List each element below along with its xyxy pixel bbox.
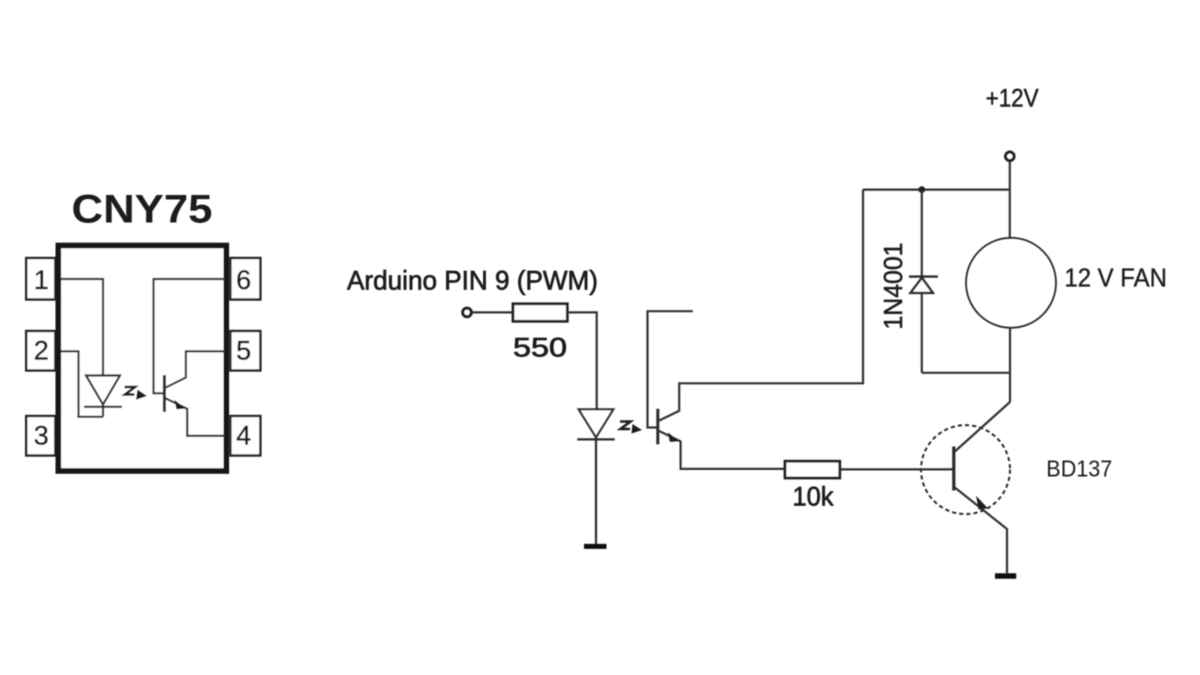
BD137 emitter arrowhead: [976, 496, 988, 510]
wire fan bottom to BD137 collector: [1009, 328, 1011, 402]
svg-text:Arduino PIN 9 (PWM): Arduino PIN 9 (PWM): [347, 266, 598, 296]
phototransistor collector to pin5: [165, 351, 225, 387]
light arrows inside package: [125, 387, 136, 395]
pin 1 box: [26, 258, 55, 300]
resistor 550 body: [513, 304, 567, 322]
svg-text:+12V: +12V: [986, 85, 1039, 113]
wire diode down to bottom junction: [921, 293, 923, 373]
BD137 emitter diagonal: [955, 488, 1007, 574]
junction dot on rail: [918, 186, 925, 193]
+12V terminal circle: [1006, 152, 1015, 161]
light arrows main: [620, 422, 631, 430]
resistor 10k body: [785, 461, 840, 478]
pin 5 box: [230, 331, 260, 371]
svg-text:4: 4: [236, 421, 251, 451]
wire diode bottom to fan bottom: [922, 372, 1010, 374]
LED inside package: [84, 376, 122, 417]
svg-text:1N4001: 1N4001: [878, 243, 908, 330]
svg-text:5: 5: [236, 336, 251, 366]
pin 3 box: [26, 416, 55, 456]
wire rail to fan top: [1009, 190, 1011, 238]
LED of opto (main drawing): [577, 409, 614, 544]
svg-text:6: 6: [236, 265, 251, 295]
wire pin2 to LED cathode: [61, 351, 103, 417]
wire pin6 to phototransistor base: [154, 279, 226, 393]
wire rail down to diode: [921, 190, 923, 277]
BD137 collector diagonal: [955, 402, 1010, 452]
svg-text:CNY75: CNY75: [72, 188, 213, 232]
wire terminal to R550: [472, 311, 513, 313]
BD137 base bar: [952, 447, 955, 491]
phototransistor base bar inside package: [163, 375, 166, 412]
phototransistor emitter wire to 10k: [659, 431, 785, 469]
phototransistor emitter to pin4: [165, 398, 225, 436]
fan motor circle: [966, 238, 1056, 328]
input terminal circle: [463, 308, 472, 317]
svg-text:10k: 10k: [793, 482, 835, 512]
ground under LED: [584, 544, 607, 549]
svg-text:1: 1: [34, 265, 49, 295]
ground under BD137: [995, 573, 1016, 579]
wire pin1 to LED anode: [61, 279, 103, 375]
wire +12V terminal down to rail: [1009, 161, 1011, 190]
pin 4 box: [230, 416, 260, 456]
optocoupler U1 package body: [58, 246, 226, 472]
wire R550 to LED: [567, 312, 596, 409]
pin 6 box: [230, 258, 260, 300]
emitter arrowhead (main opto): [668, 432, 679, 442]
diode 1N4001: [909, 277, 938, 293]
phototransistor collector wire to +12V branch: [659, 190, 863, 421]
wire 10k to BD137 base: [840, 468, 953, 470]
svg-text:2: 2: [34, 336, 49, 366]
emitter arrowhead inside package: [175, 400, 186, 410]
transistor BD137 circle: [921, 425, 1010, 514]
svg-text:BD137: BD137: [1046, 456, 1112, 482]
phototransistor base line (floating): [648, 311, 693, 427]
pin 2 box: [26, 331, 55, 371]
svg-text:12 V FAN: 12 V FAN: [1064, 265, 1167, 293]
svg-text:3: 3: [34, 421, 49, 451]
phototransistor base bar (main): [656, 409, 659, 445]
svg-text:550: 550: [513, 333, 567, 363]
+12V rail horizontal: [863, 189, 1010, 191]
